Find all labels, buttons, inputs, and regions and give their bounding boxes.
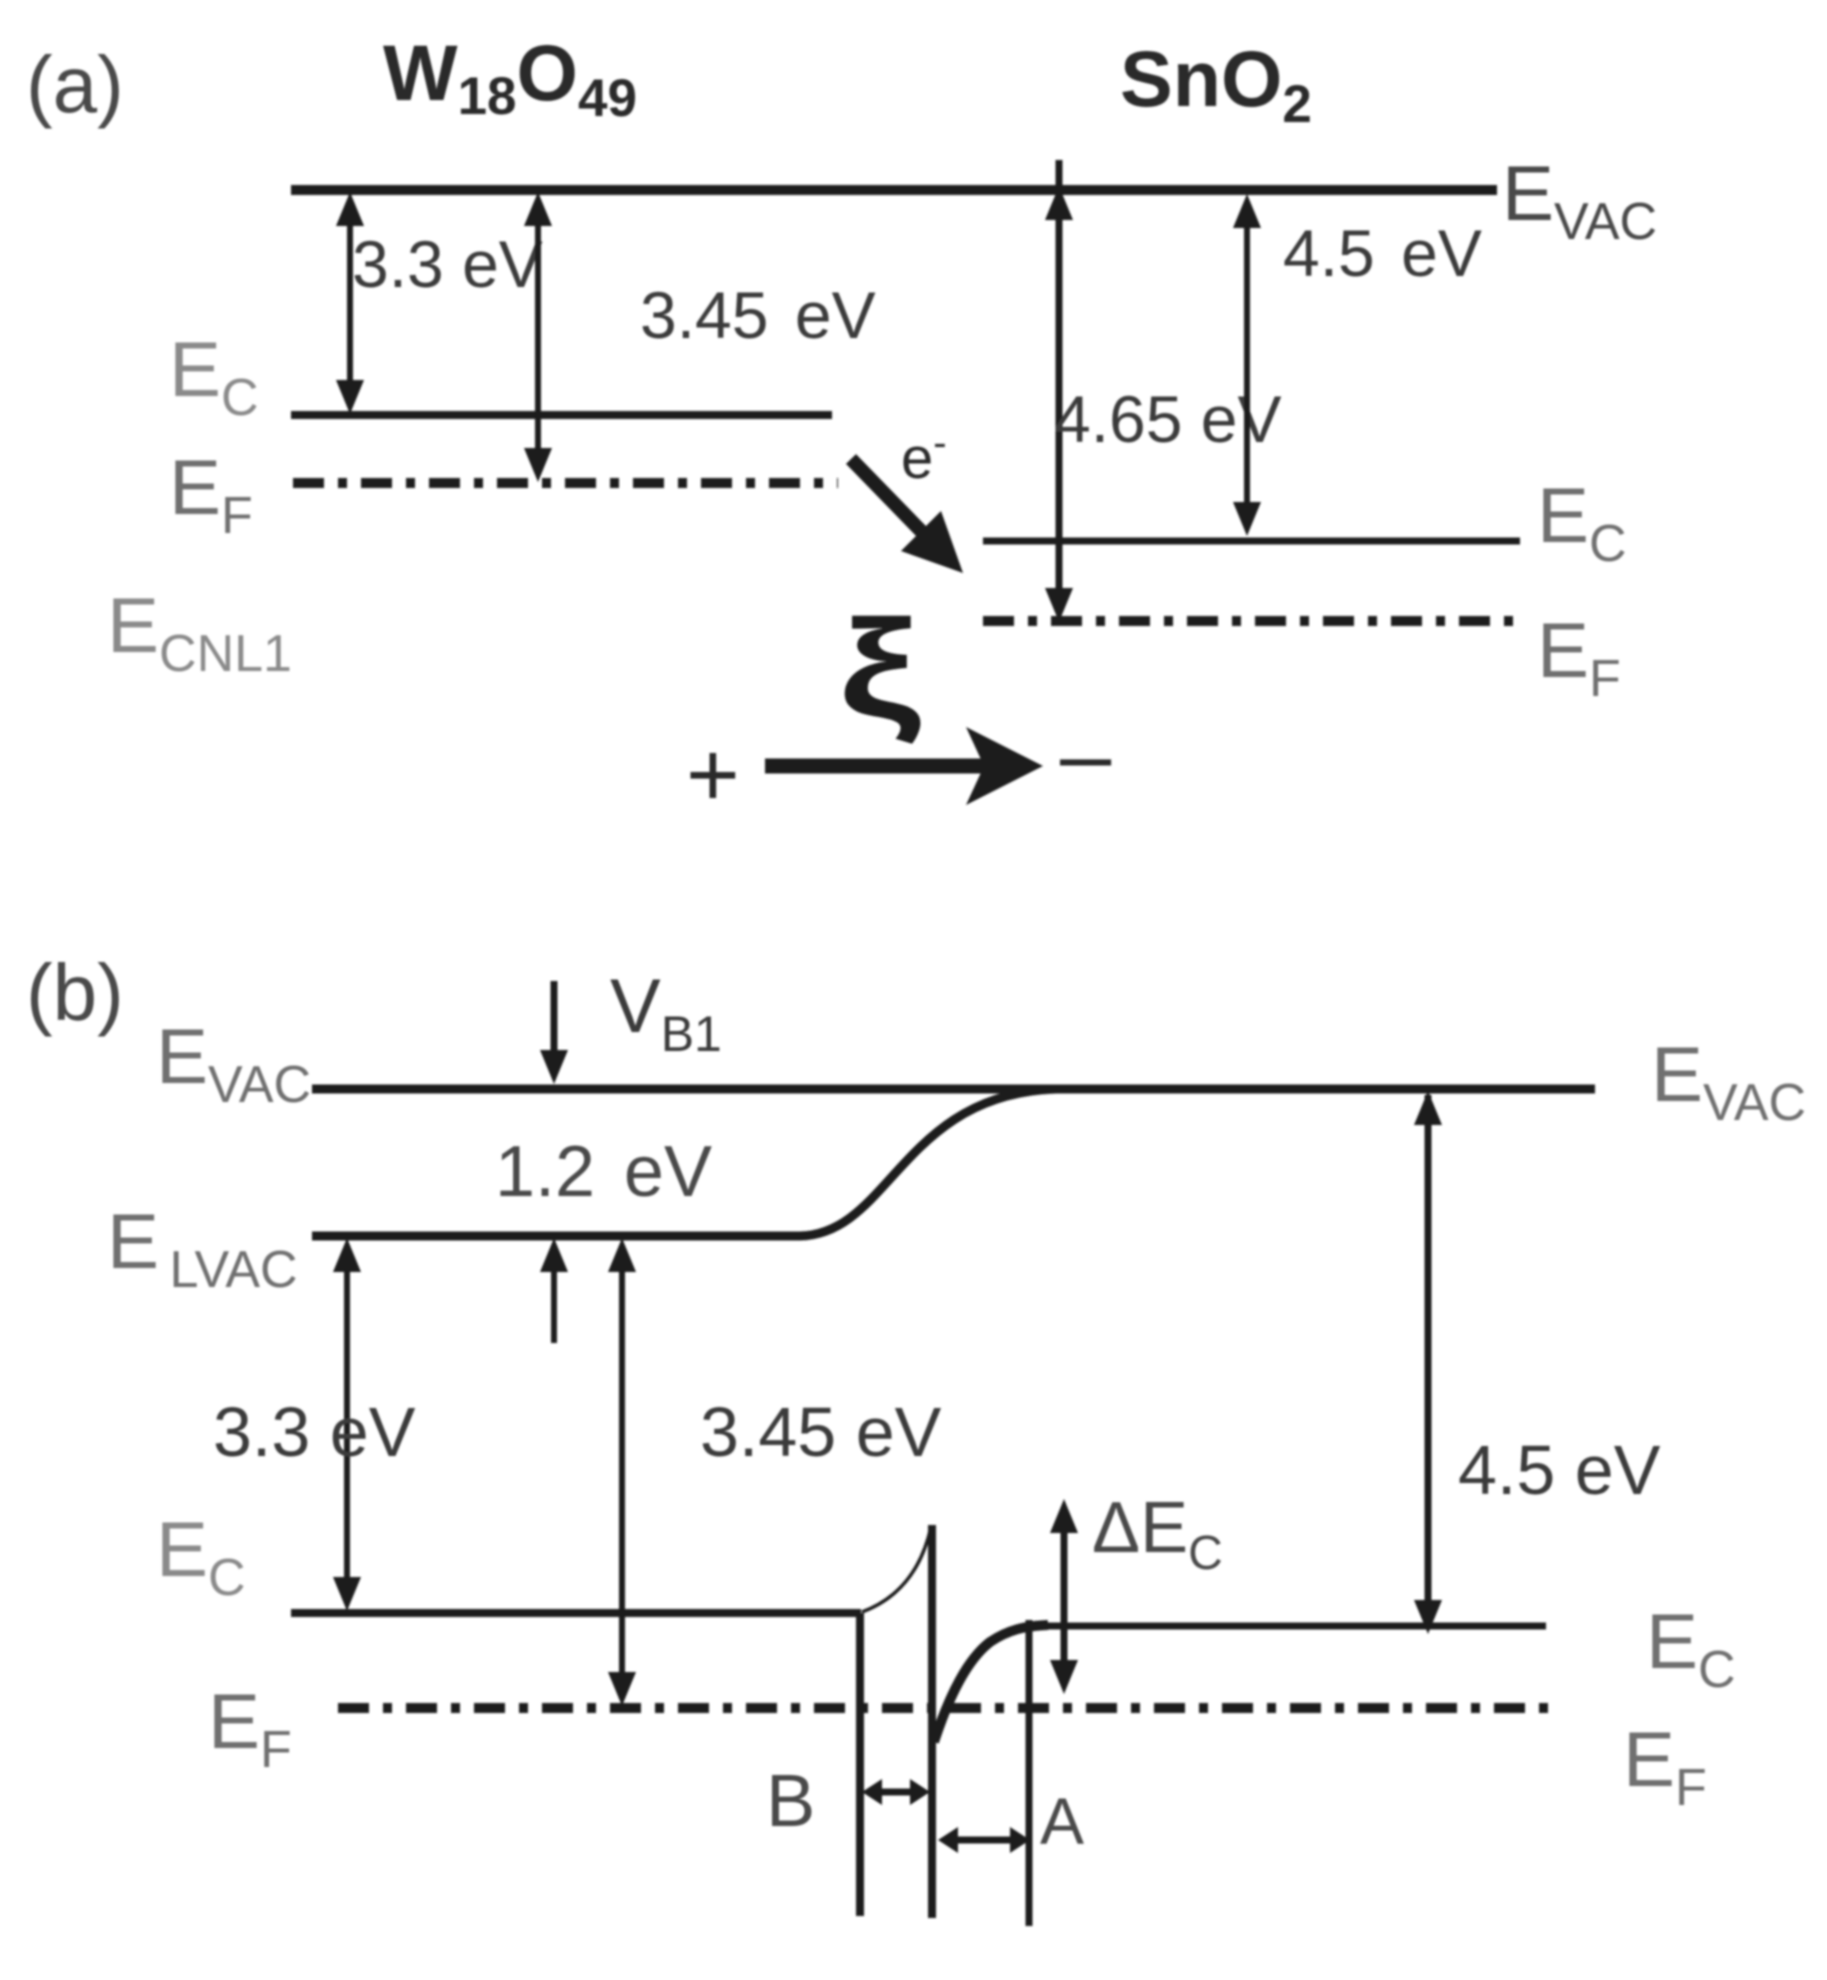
local vacuum level with band bending curve: [312, 1089, 1056, 1236]
svg-text:A: A: [1040, 1784, 1084, 1858]
svg-text:(a): (a): [26, 40, 124, 129]
arrow 3.3 eV (b): [333, 1238, 361, 1611]
arrow 3.3 eV (a): [336, 192, 364, 414]
svg-text:3.45 eV: 3.45 eV: [700, 1393, 942, 1471]
electron transfer arrow e-: [851, 459, 963, 573]
Evac level line (b): [312, 1085, 1595, 1094]
interface line A (right boundary): [1026, 1620, 1033, 1926]
Ec level line left (b): [291, 1609, 861, 1617]
svg-text:(b): (b): [26, 948, 124, 1037]
svg-text:1.2 eV: 1.2 eV: [495, 1132, 712, 1212]
svg-text:3.45 eV: 3.45 eV: [640, 278, 876, 352]
Ec level line left (a): [291, 411, 832, 419]
Ef dash-dot level left (a): [293, 478, 838, 488]
width B double arrow: [862, 1779, 930, 1805]
interface spike line: [928, 1525, 936, 1918]
thin spike curve: [862, 1527, 931, 1612]
arrow 3.45 eV (a): [524, 192, 552, 482]
svg-text:4.5 eV: 4.5 eV: [1283, 216, 1482, 290]
Ef dash-dot level right (a): [983, 616, 1516, 626]
Ec level line right (a): [983, 538, 1520, 545]
arrow 4.65 eV (a): [1045, 160, 1073, 622]
svg-text:4.5 eV: 4.5 eV: [1458, 1431, 1661, 1509]
Ec level line right (b): [1040, 1623, 1546, 1630]
arrow 4.5 eV (a): [1233, 194, 1261, 536]
svg-text:3.3 eV: 3.3 eV: [352, 227, 543, 301]
svg-text:+: +: [686, 724, 740, 826]
svg-text:–: –: [1060, 704, 1112, 806]
Ef dash-dot level (b): [338, 1703, 1560, 1713]
arrow 3.45 eV (b): [608, 1238, 636, 1706]
V_B1 arrow: [540, 981, 568, 1084]
depletion band bending curve: [934, 1625, 1048, 1742]
width A double arrow: [938, 1827, 1030, 1853]
arrow 4.5 eV (b): [1414, 1091, 1442, 1634]
Evac level line (a): [291, 185, 1497, 195]
svg-text:B: B: [766, 1759, 815, 1842]
svg-text:ξ: ξ: [839, 591, 921, 746]
field direction arrow: [765, 727, 1043, 805]
interface barrier left wall: [856, 1613, 864, 1916]
svg-text:3.3 eV: 3.3 eV: [213, 1393, 416, 1471]
small up arrow 1.2 eV: [540, 1238, 568, 1343]
arrow delta Ec: [1050, 1499, 1078, 1694]
